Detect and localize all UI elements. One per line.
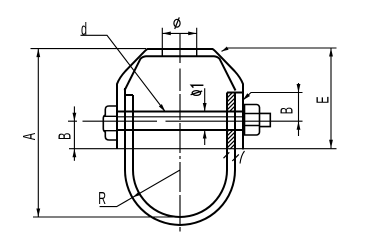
svg-text:E: E (314, 96, 333, 103)
svg-text:B: B (56, 133, 75, 140)
svg-text:B: B (278, 107, 297, 114)
svg-text:A: A (20, 133, 39, 140)
svg-text:R: R (98, 189, 106, 208)
svg-text:d: d (81, 21, 87, 40)
